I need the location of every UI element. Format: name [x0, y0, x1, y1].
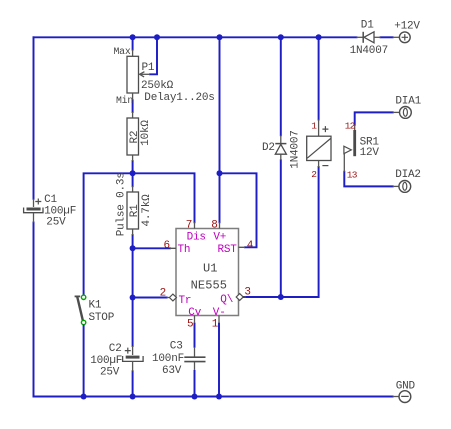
wire V+ to RST link	[220, 173, 257, 247]
wire Th node down to Tr node	[132, 248, 134, 297]
svg-text:V+: V+	[213, 231, 226, 243]
resistor R1	[127, 186, 139, 235]
wire contact pin12 to DIA1	[355, 112, 393, 124]
junction V+/RST node	[217, 170, 223, 176]
capacitor C3	[184, 348, 205, 370]
svg-text:DIA1: DIA1	[395, 95, 421, 107]
svg-text:Q\: Q\	[220, 294, 233, 306]
junction bottom rail C3	[192, 394, 198, 400]
relay SR1 coil	[307, 120, 331, 181]
svg-text:4: 4	[247, 240, 254, 252]
IC U1 NE555	[167, 222, 246, 322]
wire D2 bottom to Q net	[280, 160, 282, 297]
junction R2/R1 node	[130, 170, 136, 176]
terminal GND	[393, 380, 416, 402]
capacitor C1	[24, 199, 43, 223]
svg-text:D2: D2	[262, 142, 275, 154]
junction top rail D2	[278, 34, 284, 40]
junction bottom rail C2	[130, 394, 136, 400]
junction bottom rail pin1	[216, 394, 222, 400]
svg-text:63V: 63V	[162, 365, 182, 377]
wire Tr node down to C2	[132, 298, 134, 347]
svg-text:STOP: STOP	[89, 312, 115, 324]
relay SR1 contact	[344, 120, 380, 180]
wire P1 bottom to R2 top	[132, 100, 134, 112]
terminal DIA2	[393, 169, 421, 192]
switch K1	[75, 295, 115, 396]
capacitor C2	[123, 346, 144, 371]
svg-text:1N4007: 1N4007	[289, 130, 301, 168]
svg-text:GND: GND	[396, 380, 416, 392]
wire C2 bottom to GND rail	[132, 371, 134, 396]
svg-text:8: 8	[211, 220, 217, 232]
svg-text:2: 2	[160, 288, 166, 300]
terminal DIA1	[393, 95, 422, 118]
svg-text:Max: Max	[114, 46, 131, 57]
svg-text:Th: Th	[178, 244, 191, 256]
svg-text:6: 6	[164, 240, 170, 252]
wire P1 top lead	[132, 37, 134, 49]
svg-text:RST: RST	[218, 244, 238, 256]
svg-text:Tr: Tr	[179, 295, 192, 307]
wire P1 wiper to top rail	[150, 37, 157, 74]
svg-text:Dis: Dis	[187, 231, 206, 243]
svg-text:12V: 12V	[360, 147, 380, 159]
potentiometer P1	[127, 50, 150, 101]
svg-text:R1: R1	[129, 204, 141, 217]
junction Th node	[130, 245, 136, 251]
wire pin1 V- to rail	[218, 323, 220, 397]
junction bottom rail K1	[81, 394, 87, 400]
svg-text:NE555: NE555	[191, 279, 228, 293]
svg-text:+12V: +12V	[394, 20, 420, 32]
resistor R2	[127, 112, 139, 161]
pin numbers U1	[160, 220, 254, 331]
wire node to R1 top	[132, 173, 134, 186]
svg-text:C1: C1	[44, 194, 57, 206]
svg-text:7: 7	[186, 220, 192, 232]
svg-text:10kΩ: 10kΩ	[140, 120, 152, 146]
diode D1	[357, 32, 381, 43]
wire Tr pin 2	[133, 297, 167, 299]
svg-text:25V: 25V	[100, 366, 120, 378]
svg-text:Delay1..20s: Delay1..20s	[144, 92, 214, 104]
wire D2 top to rail	[280, 37, 282, 135]
wire left rail lower (C1 to bottom)	[33, 223, 35, 397]
svg-text:U1: U1	[203, 261, 218, 275]
junction top rail V+	[217, 34, 223, 40]
wire contact pin13 to DIA2	[344, 172, 392, 187]
junction Tr node	[130, 295, 136, 301]
svg-text:V-: V-	[213, 307, 226, 319]
wire Q pin3 to relay coil	[243, 167, 318, 297]
diode D2	[275, 135, 286, 160]
wire Th pin 6	[133, 247, 170, 249]
wire relay coil top to rail	[318, 37, 320, 119]
wire C3 bottom lead blue	[194, 370, 196, 397]
svg-text:12: 12	[345, 120, 356, 131]
svg-text:4.7kΩ: 4.7kΩ	[141, 194, 153, 227]
junction Q/D2 node	[278, 294, 284, 300]
svg-text:25V: 25V	[46, 217, 66, 229]
svg-text:1: 1	[212, 319, 219, 331]
svg-text:250kΩ: 250kΩ	[141, 80, 174, 92]
svg-text:13: 13	[347, 170, 358, 181]
svg-text:1N4007: 1N4007	[350, 45, 388, 57]
wire top +12V rail	[34, 36, 357, 38]
svg-text:K1: K1	[89, 299, 102, 311]
wire C3 top lead blue	[194, 323, 196, 348]
junction top rail coil	[316, 34, 322, 40]
junction top rail wiper	[154, 34, 160, 40]
wire R1 bottom to Th node	[132, 235, 134, 248]
wire V+ rail to pin 8	[219, 37, 221, 222]
terminal +12V	[393, 20, 421, 42]
wire bottom GND rail	[34, 396, 393, 398]
junction top rail P1	[130, 34, 136, 40]
svg-text:Min: Min	[116, 95, 133, 106]
svg-text:C3: C3	[170, 341, 183, 353]
svg-text:DIA2: DIA2	[395, 169, 421, 181]
svg-text:Cv: Cv	[188, 307, 201, 319]
svg-text:R2: R2	[129, 131, 141, 144]
wire R2 bottom to node	[132, 161, 134, 173]
wire D1 to +12V terminal	[381, 36, 393, 38]
svg-text:C2: C2	[109, 343, 122, 355]
svg-text:5: 5	[187, 319, 193, 331]
svg-text:D1: D1	[361, 20, 374, 32]
svg-text:3: 3	[244, 286, 250, 298]
svg-text:Pulse 0.3s: Pulse 0.3s	[116, 172, 128, 236]
svg-text:100nF: 100nF	[152, 353, 184, 365]
wire left rail upper (to C1)	[33, 37, 35, 199]
wire node row y=173 to K1 and Dis	[84, 173, 195, 295]
svg-text:P1: P1	[142, 62, 155, 74]
